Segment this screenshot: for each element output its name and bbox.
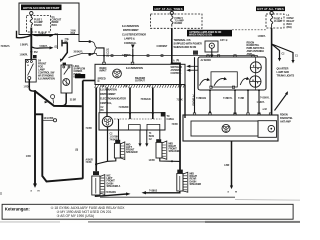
right speaker <box>177 172 188 192</box>
radio box <box>198 57 266 90</box>
wires into eq box from rheostat <box>99 87 101 112</box>
svg-text:74 BR: 74 BR <box>172 123 179 126</box>
rheostat module box <box>95 64 185 84</box>
fuse F5 dashed box <box>151 14 203 28</box>
arrowhead into S5 <box>60 59 63 63</box>
connector arrow lower <box>50 46 54 49</box>
svg-text:BOX: BOX <box>52 24 58 27</box>
ground G arrow <box>33 184 37 188</box>
connector tag C2 on switch S4 <box>33 55 37 58</box>
amp circle <box>222 124 230 132</box>
text illumination instrument cluster <box>122 25 146 45</box>
wire F4 trunk down <box>271 28 273 115</box>
wire below right speaker <box>146 191 180 193</box>
svg-text:HOT IN ACC RUN OR START: HOT IN ACC RUN OR START <box>23 6 60 10</box>
label left speaker <box>107 175 121 188</box>
antenna connector box <box>205 41 218 52</box>
svg-text:1 BK/YL: 1 BK/YL <box>257 102 266 104</box>
ticks on amp top <box>193 113 271 115</box>
terminal circle <box>53 119 56 122</box>
splice circle on diagonal <box>51 95 55 99</box>
svg-text:ELECTRO/NAVIGATOR: ELECTRO/NAVIGATOR <box>100 98 126 101</box>
svg-text:ILLUMINATION: ILLUMINATION <box>126 67 143 70</box>
svg-text:5 BK/YL: 5 BK/YL <box>39 34 48 36</box>
text quarter lamp and trunk lights <box>277 68 295 78</box>
amp ground wire <box>231 141 233 186</box>
trunk wire right of eq <box>184 85 186 119</box>
plug staple symbols on eq bottom <box>129 125 141 130</box>
svg-text:SPEAKER: SPEAKER <box>126 151 138 154</box>
bottom scan band <box>88 221 230 223</box>
svg-text:71 BR: 71 BR <box>86 128 93 130</box>
text RD/GN radio tel pwr ant <box>247 41 265 56</box>
svg-text:74 BR: 74 BR <box>238 97 245 100</box>
svg-text:71 BK: 71 BK <box>177 100 184 102</box>
wire left of radio down to amp <box>194 57 196 113</box>
wire below mid-right speaker to trunk <box>160 158 180 161</box>
svg-text:RADIO: RADIO <box>34 24 42 27</box>
connector dot lower <box>88 53 91 56</box>
module tag black <box>75 74 85 78</box>
fuse F1 value label <box>34 19 43 27</box>
tag C1 above radio <box>193 51 198 55</box>
diagonal arrow off page <box>275 94 287 111</box>
header HOT AT ALL TIMES (right) <box>256 7 285 12</box>
svg-text:74 GN/YL: 74 GN/YL <box>260 96 270 99</box>
label L1 conv relay box <box>287 14 295 29</box>
connector tag C2 on S5 <box>63 63 66 66</box>
svg-text:INSTRUMENT: INSTRUMENT <box>100 93 116 96</box>
mid-right speaker <box>156 141 167 159</box>
ticks on radio top <box>207 55 254 57</box>
svg-text:1 RD/YL: 1 RD/YL <box>258 36 267 38</box>
circuit breaker box outline <box>19 3 79 35</box>
right speaker tag <box>177 170 183 174</box>
wire brace to rheostat terminal <box>98 48 104 62</box>
fuse F4 element <box>270 15 272 28</box>
connector hatch row below rheostat box <box>95 85 185 88</box>
svg-text:RADIO: RADIO <box>175 22 183 25</box>
wire header to fuse <box>171 10 173 13</box>
fuse F4 dashed box <box>266 14 284 28</box>
dashed divider <box>114 118 162 120</box>
bracket bus joining connectors <box>57 34 59 50</box>
radio knob circle 1 <box>250 62 261 73</box>
svg-text:TRUNK LIGHTS: TRUNK LIGHTS <box>277 75 295 78</box>
svg-text:m: m <box>38 191 40 193</box>
terminal squares on top <box>103 62 106 64</box>
svg-text:31 BR: 31 BR <box>70 100 77 102</box>
svg-text:LAMPS &: LAMPS & <box>124 38 135 41</box>
radio output stubs to rheostat <box>190 65 198 67</box>
rheostat labels <box>98 67 146 83</box>
legend box <box>2 204 293 219</box>
svg-text:SPEAKER: SPEAKER <box>190 183 202 186</box>
svg-text:30: 30 <box>27 65 29 67</box>
svg-text:1 BK/PL: 1 BK/PL <box>20 45 29 47</box>
wire diagonal to bus <box>35 91 82 106</box>
header HOT AT ALL TIMES (center) <box>153 6 184 11</box>
wire trunk down to right speaker <box>172 63 180 170</box>
svg-text:LAMP AND: LAMP AND <box>277 71 290 74</box>
thin line above legend <box>100 196 235 198</box>
svg-text:74 BK/YL: 74 BK/YL <box>223 97 233 100</box>
tag C1 on eq <box>161 112 166 117</box>
mid speaker <box>114 142 124 160</box>
svg-text:5 BK/YL: 5 BK/YL <box>40 46 49 48</box>
svg-text:74 BK/S: 74 BK/S <box>149 190 158 193</box>
legend lines <box>51 206 126 218</box>
label 7.5k BK <box>65 39 70 44</box>
svg-text:70 BK/YL: 70 BK/YL <box>1 46 11 48</box>
ground labels <box>31 191 40 193</box>
svg-text:HOT AT ALL TIMES: HOT AT ALL TIMES <box>155 7 183 11</box>
svg-text:1 RD: 1 RD <box>26 156 31 158</box>
svg-text:WHEN RADIO IS ON: WHEN RADIO IS ON <box>189 34 212 37</box>
fuse F1 element <box>30 15 32 27</box>
label C1 circuit breaker box <box>52 16 62 27</box>
svg-text:HOT AT ALL TIMES: HOT AT ALL TIMES <box>257 7 284 11</box>
radio bottom terminals <box>210 86 212 88</box>
labels between wires <box>119 99 184 109</box>
svg-text:③ AS OF MY 1990 (USA): ③ AS OF MY 1990 (USA) <box>57 214 95 218</box>
svg-text:(S): (S) <box>176 60 179 62</box>
svg-text:BK/S: BK/S <box>149 136 155 138</box>
wire inside eq to mid speaker <box>118 119 120 143</box>
svg-text:CENTRAL,: CENTRAL, <box>100 102 112 105</box>
label right speaker <box>190 173 202 186</box>
brace merging wires <box>91 42 98 55</box>
wire below mid speaker to ground return <box>97 158 116 164</box>
left speaker <box>92 175 105 195</box>
wire branch right upper <box>31 34 49 35</box>
svg-text:1 BK/PL: 1 BK/PL <box>20 54 29 56</box>
text right of amp <box>280 114 293 124</box>
stub to cigar terminal <box>42 119 53 121</box>
svg-text:ILLUMINATION: ILLUMINATION <box>100 88 117 91</box>
wire antenna to radio <box>211 48 213 55</box>
svg-text:A BR: A BR <box>224 164 230 167</box>
junction dot <box>95 163 97 165</box>
radio output wires <box>209 90 211 113</box>
labels (Y) C2 (S) <box>106 50 110 58</box>
wire thin diagonal 30 BK/YL <box>69 53 98 57</box>
dashed line to fuse 4 box <box>232 29 266 31</box>
switch S4 box <box>25 60 36 83</box>
label A BK/S <box>86 158 94 164</box>
svg-text:75 BK/GN: 75 BK/GN <box>141 99 151 101</box>
text terminal 3 supplied with power <box>174 39 202 49</box>
arrow feed to rheostat terminal 2 <box>131 45 135 49</box>
label S4 front fog lamp switch <box>38 60 55 81</box>
svg-text:WHEN RADIO IS ON: WHEN RADIO IS ON <box>174 46 197 49</box>
junction dots on eq box <box>129 112 131 114</box>
wire pair down to speaker <box>82 81 84 179</box>
svg-text:A2 RADIO: A2 RADIO <box>201 59 212 62</box>
svg-text:TO: TO <box>167 116 170 118</box>
junction dot radio feed <box>171 62 173 64</box>
antenna terminal circle <box>209 43 214 48</box>
label S5 fog lamp switch <box>74 65 86 79</box>
rheostat circle <box>113 69 122 78</box>
svg-text:O: O <box>98 80 100 83</box>
wire labels <box>196 96 270 100</box>
amp right circle <box>268 125 275 132</box>
radio inner compartment <box>211 72 237 87</box>
label mid speaker <box>126 143 138 154</box>
wire below S4 <box>29 80 35 92</box>
connector marks C2 <box>102 86 152 88</box>
label mid-right speaker <box>169 142 181 153</box>
wire main trunk from fuse F1 down to switch S4 <box>30 28 32 60</box>
terminal circle F5 <box>170 11 173 14</box>
branch wire right <box>35 114 83 181</box>
svg-text:CURRENT: CURRENT <box>157 46 168 48</box>
terminal circle on fuse F1 <box>30 12 33 15</box>
label (RH) <box>71 31 76 36</box>
svg-text:OUTPUT: OUTPUT <box>135 80 145 83</box>
radio tuner arcs <box>200 79 209 85</box>
svg-text:QUARTER: QUARTER <box>277 68 289 71</box>
svg-text:ANT AMP: ANT AMP <box>280 120 291 123</box>
junction dots at radio bottom <box>209 89 211 91</box>
ground labels <box>228 192 238 194</box>
junction <box>34 90 36 92</box>
wires from plugs down with arrows <box>139 130 141 144</box>
svg-text:EXT. ①: EXT. ① <box>220 39 227 42</box>
wire branch right lower <box>31 47 49 48</box>
svg-text:30 BK/YL: 30 BK/YL <box>74 52 84 54</box>
wire elbow from tag to rheostat <box>83 80 95 82</box>
svg-text:14 BR: 14 BR <box>149 159 156 162</box>
svg-text:BK: BK <box>101 110 105 112</box>
junction dots on bus <box>103 55 105 57</box>
wire from box edge to brace <box>79 4 88 42</box>
labels under eq <box>110 134 119 142</box>
mid-right speaker tag <box>156 139 161 142</box>
fuse F5 element <box>171 15 173 27</box>
terminal circle F4 <box>270 11 273 14</box>
svg-text:ILLUMINATION: ILLUMINATION <box>122 25 139 28</box>
C1 cable label <box>167 116 179 126</box>
svg-text:71 BK/RD: 71 BK/RD <box>119 107 129 109</box>
long thin bus line <box>97 56 258 58</box>
svg-text:74 BK/GN: 74 BK/GN <box>196 97 206 100</box>
wire branch left to connector <box>17 31 32 38</box>
fuse F5 labels <box>175 17 184 25</box>
svg-text:ILLUMINATION: ILLUMINATION <box>38 78 55 81</box>
fuse box F1 dashed <box>27 16 51 33</box>
wire below left speaker <box>96 194 127 196</box>
mid speaker tag <box>115 140 120 143</box>
labels on stubs <box>282 54 299 58</box>
svg-text:INPUT: INPUT <box>100 70 108 73</box>
fuse F4 labels <box>274 17 283 23</box>
svg-text:AMP: AMP <box>247 53 253 56</box>
svg-text:(RH): (RH) <box>287 26 292 29</box>
text illumination instrument central <box>100 88 126 105</box>
svg-text:CABLE: CABLE <box>167 118 175 121</box>
svg-text:16 GY/BK: 16 GY/BK <box>44 118 54 120</box>
svg-text:74 BK/RD: 74 BK/RD <box>192 94 196 106</box>
radio knob circle 2 <box>250 58 261 91</box>
svg-text:1 RD: 1 RD <box>24 87 29 89</box>
svg-text:(S): (S) <box>75 150 78 152</box>
svg-text:(Y): (Y) <box>106 50 109 52</box>
svg-text:CLUSTER/EXTERIOR: CLUSTER/EXTERIOR <box>122 33 146 36</box>
black info box antenna amplifier <box>187 30 232 37</box>
svg-text:A BK/S: A BK/S <box>86 158 94 161</box>
svg-text:16 AMP: 16 AMP <box>274 20 283 23</box>
wire from bracket to fog switch S5 <box>62 43 68 60</box>
wire below S5 <box>58 93 66 106</box>
svg-text:CONSOLE.: CONSOLE. <box>124 42 137 45</box>
svg-text:74 BK/WH: 74 BK/WH <box>106 191 117 194</box>
tick marks on bus <box>111 55 163 57</box>
svg-text:INSTRUMENT: INSTRUMENT <box>123 29 139 32</box>
wire F5 down to junction <box>171 28 173 63</box>
svg-text:SPEAKER A: SPEAKER A <box>107 185 121 188</box>
svg-text:1 GY/BK: 1 GY/BK <box>110 137 119 139</box>
splice S52 dot <box>30 51 32 53</box>
svg-text:SPEAKER: SPEAKER <box>169 150 181 153</box>
eq circle <box>102 116 112 126</box>
svg-text:74 BK: 74 BK <box>86 161 93 164</box>
wire from eq circle down <box>107 127 109 162</box>
connector dot upper <box>88 40 91 43</box>
svg-text:Keterangan:: Keterangan: <box>5 207 31 212</box>
left speaker tag <box>93 171 99 175</box>
branch fan to quarter lamps <box>272 44 280 59</box>
labels A BK/S (S) <box>173 59 179 62</box>
equalizer box <box>99 113 165 130</box>
header HOT IN ACC RUN OR START <box>21 5 62 11</box>
amp inner rect <box>191 121 258 136</box>
amp right compartment <box>258 121 277 138</box>
svg-text:(RH): (RH) <box>71 33 76 35</box>
wire trunk down to ground <box>34 91 36 183</box>
amplifier box <box>183 115 278 141</box>
fog switch S5 box <box>61 65 72 93</box>
svg-text:m: m <box>235 192 237 194</box>
connector arrow upper <box>50 34 54 37</box>
